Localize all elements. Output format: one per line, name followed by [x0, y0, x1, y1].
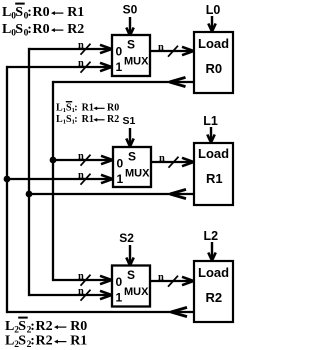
mux U3 [112, 266, 150, 307]
node junction R2 bus to U2 input 1 [4, 176, 11, 183]
svg-text:Load: Load [198, 265, 229, 280]
wire R0 bus to U2 input 0 [53, 156, 113, 164]
mux U1 [112, 35, 150, 76]
svg-text:R2: R2 [206, 290, 223, 305]
svg-text:1: 1 [117, 172, 124, 186]
svg-text:n: n [159, 153, 165, 164]
svg-text:MUX: MUX [124, 56, 149, 68]
svg-text:S0: S0 [123, 3, 138, 17]
node junction R1 feedback to R1 bus [26, 191, 33, 198]
svg-text:R0: R0 [33, 5, 50, 20]
svg-text:L: L [2, 22, 11, 37]
wire R1 bus to U1 input 0 [29, 45, 112, 53]
svg-text:n: n [78, 286, 84, 297]
svg-text:0: 0 [116, 275, 123, 289]
svg-text:L: L [5, 334, 14, 349]
wire R1 output bus (vertical) [28, 48, 30, 296]
bus width n on U3 input 1 [78, 286, 91, 301]
svg-text:n: n [78, 170, 84, 181]
svg-text:1: 1 [116, 291, 123, 305]
wire S2 select into mux U3 [126, 245, 133, 266]
wire R2 output feedback to R2 bus [7, 307, 194, 316]
register transfer annotation for R2 [5, 318, 87, 350]
svg-text:L1: L1 [203, 114, 218, 128]
svg-text:n: n [158, 42, 164, 53]
svg-text:S: S [18, 334, 26, 349]
svg-text:n: n [78, 58, 84, 69]
svg-text:0: 0 [117, 157, 124, 171]
svg-text::: : [30, 334, 35, 349]
svg-text:S: S [15, 5, 23, 20]
wire R2 bus to U1 input 1 [7, 63, 112, 71]
register R2 [194, 261, 233, 322]
svg-text:Load: Load [198, 146, 229, 161]
bus width n on U1 input 1 [78, 58, 91, 73]
register R1 [194, 143, 233, 205]
svg-text:R2: R2 [67, 22, 84, 37]
svg-text:R1: R1 [67, 5, 84, 20]
svg-text:R1: R1 [82, 114, 94, 125]
svg-text:0: 0 [116, 45, 123, 59]
wire R0 output bus (vertical) [52, 81, 54, 281]
wire L2 load into register R2 [208, 242, 215, 261]
register R0 [194, 32, 233, 93]
wire R0 output feedback to R0 bus [53, 77, 194, 86]
svg-text:n: n [158, 272, 164, 283]
svg-text:S: S [15, 22, 23, 37]
wire R1 output feedback to R1 bus [29, 189, 194, 198]
svg-text::: : [27, 22, 32, 37]
svg-text:R1: R1 [206, 171, 223, 186]
svg-text:R1: R1 [82, 103, 94, 114]
svg-text:R0: R0 [107, 103, 119, 114]
wire R2 output bus (vertical) [6, 66, 8, 313]
svg-text:R2: R2 [107, 114, 119, 125]
wire U3 output to register R2 [150, 277, 194, 285]
bus width n on U2 input 0 [78, 151, 91, 166]
svg-text:R1: R1 [70, 334, 87, 349]
bus width n on U2 input 1 [78, 170, 91, 185]
svg-text::: : [74, 114, 77, 125]
svg-text:L: L [2, 5, 11, 20]
svg-text::: : [74, 103, 77, 114]
svg-text:R2: R2 [36, 334, 53, 349]
wire L0 load into register R0 [208, 16, 215, 32]
svg-text::: : [30, 319, 35, 334]
svg-text:MUX: MUX [124, 286, 149, 298]
register transfer annotation for R1 [56, 102, 119, 126]
wire U2 output to register R1 [151, 158, 194, 166]
svg-text:n: n [78, 271, 84, 282]
svg-text:S: S [127, 38, 135, 52]
svg-text:R0: R0 [70, 319, 87, 334]
svg-text:S2: S2 [119, 231, 134, 245]
bus width n on U3 input 0 [78, 271, 91, 286]
wire R2 bus to U2 input 1 [7, 175, 113, 183]
bus width n on U3 output [158, 272, 178, 287]
wire L1 load into register R1 [207, 127, 214, 143]
svg-text:Load: Load [198, 36, 229, 51]
wire U1 output to register R0 [150, 47, 194, 55]
svg-text:1: 1 [116, 60, 123, 74]
wire S0 select into mux U1 [126, 17, 133, 36]
svg-text:n: n [78, 40, 84, 51]
svg-text:S: S [128, 150, 136, 164]
node junction R0 bus to U2 input 0 [50, 157, 57, 164]
svg-text:L: L [5, 319, 14, 334]
bus width n on U1 input 0 [78, 40, 91, 55]
svg-text:R2: R2 [36, 319, 53, 334]
svg-text:R0: R0 [206, 61, 223, 76]
svg-text:n: n [78, 151, 84, 162]
register transfer annotation for R0 [2, 4, 84, 39]
svg-text:L2: L2 [204, 229, 219, 243]
wire R1 bus to U3 input 1 [29, 291, 112, 299]
svg-text:L0: L0 [206, 3, 221, 17]
svg-text:S: S [18, 319, 26, 334]
svg-text:S1: S1 [123, 115, 136, 127]
bus width n on U2 output [159, 153, 179, 168]
svg-text:MUX: MUX [125, 168, 150, 180]
svg-text:S: S [127, 268, 135, 282]
wire R0 bus to U3 input 0 [53, 276, 112, 284]
svg-text:R0: R0 [33, 22, 50, 37]
bus width n on U1 output [158, 42, 178, 57]
wire S1 select into mux U2 [126, 128, 133, 147]
svg-text::: : [27, 5, 32, 20]
mux U2 [113, 147, 151, 187]
